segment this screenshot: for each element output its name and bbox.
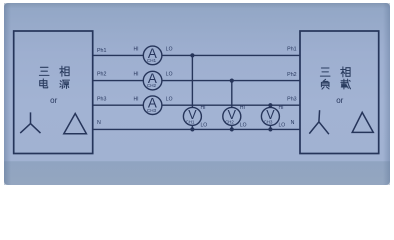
svg-text:HI: HI xyxy=(240,105,245,111)
wire Ph3 xyxy=(93,104,300,106)
svg-text:or: or xyxy=(336,96,343,105)
wire Ph2 xyxy=(93,80,300,82)
svg-text:N: N xyxy=(291,120,295,126)
svg-text:CH2: CH2 xyxy=(147,83,157,88)
svg-text:CH3: CH3 xyxy=(264,119,273,124)
svg-text:or: or xyxy=(50,96,57,105)
svg-text:HI: HI xyxy=(279,105,284,111)
voltmeter CH3 xyxy=(261,105,285,129)
wire V1 tap xyxy=(191,55,193,129)
svg-text:LO: LO xyxy=(201,123,208,129)
svg-text:Ph3: Ph3 xyxy=(97,96,106,102)
svg-text:LO: LO xyxy=(166,72,173,78)
svg-text:LO: LO xyxy=(240,123,247,129)
source box xyxy=(14,31,93,154)
svg-text:LO: LO xyxy=(166,47,173,53)
junction N V2 xyxy=(230,127,234,131)
svg-text:N: N xyxy=(97,120,101,126)
wire N xyxy=(93,128,300,130)
svg-text:CH2: CH2 xyxy=(225,119,234,124)
svg-text:HI: HI xyxy=(134,96,139,102)
load box xyxy=(300,31,379,154)
load box title 三相负载 xyxy=(320,67,350,89)
source box title 三相电源 xyxy=(39,66,69,88)
svg-text:Ph2: Ph2 xyxy=(287,72,296,78)
ammeter CH3 xyxy=(134,96,173,115)
voltmeter CH1 xyxy=(183,105,207,129)
delta symbol (source) xyxy=(64,114,87,134)
wire V3 tap xyxy=(269,105,271,129)
svg-text:HI: HI xyxy=(134,72,139,78)
svg-text:LO: LO xyxy=(279,123,286,129)
svg-text:CH1: CH1 xyxy=(186,119,195,124)
voltmeter CH2 xyxy=(223,105,247,129)
svg-text:Ph1: Ph1 xyxy=(97,48,106,54)
wire Ph1 xyxy=(93,54,300,56)
junction Ph2 tap xyxy=(230,79,234,83)
wye symbol (source) xyxy=(20,112,40,133)
svg-text:LO: LO xyxy=(166,96,173,102)
svg-text:HI: HI xyxy=(134,47,139,53)
wye symbol (load) xyxy=(309,110,329,134)
svg-text:Ph3: Ph3 xyxy=(287,96,296,102)
delta symbol (load) xyxy=(352,112,373,132)
junction Ph1 tap xyxy=(190,53,194,57)
junction Ph3 tap xyxy=(268,103,272,107)
ammeter CH2 xyxy=(134,71,173,90)
background panel xyxy=(4,3,390,185)
ammeter CH1 xyxy=(134,46,173,65)
svg-text:CH3: CH3 xyxy=(147,108,157,113)
junction N V1 xyxy=(190,127,194,131)
svg-text:Ph1: Ph1 xyxy=(287,47,296,53)
wire V2 tap xyxy=(231,81,233,130)
junction N V3 xyxy=(268,127,272,131)
svg-text:Ph2: Ph2 xyxy=(97,72,106,78)
svg-text:CH1: CH1 xyxy=(147,58,157,63)
svg-text:HI: HI xyxy=(201,105,206,111)
